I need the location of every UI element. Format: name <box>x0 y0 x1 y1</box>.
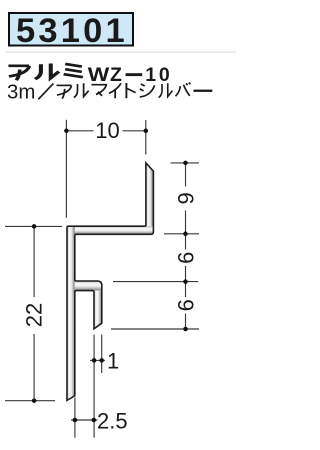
title kana A <box>8 66 29 80</box>
dim 2.5: dimension line <box>71 419 98 421</box>
title long dash <box>126 73 143 76</box>
svg-text:W: W <box>88 64 110 85</box>
profile fill: middle fin <box>94 291 102 329</box>
dim 1: dimension line <box>90 359 105 361</box>
svg-text:22: 22 <box>22 303 47 327</box>
dim 22: extension line top <box>5 225 62 227</box>
dim 10: end dots <box>64 129 69 134</box>
svg-text:10: 10 <box>95 118 119 143</box>
subtitle kana SHI <box>140 84 155 97</box>
svg-text:6: 6 <box>173 299 198 311</box>
svg-text:6: 6 <box>173 252 198 264</box>
svg-text:9: 9 <box>173 192 198 204</box>
subtitle kana RU <box>74 83 89 97</box>
dim 10: extension line right <box>145 120 147 154</box>
dim 10: dimension line <box>66 130 93 132</box>
dim 9/6/6: dots <box>183 161 188 166</box>
title kana MI <box>64 64 83 77</box>
product number box 53101 <box>9 13 133 46</box>
dim 2.5: dots <box>73 418 78 423</box>
dim 10: extension line left <box>65 120 67 218</box>
profile fill: top arm <box>67 226 153 234</box>
subtitle long vowel bar <box>194 90 213 92</box>
subtitle kana TO <box>126 83 135 98</box>
title kana RU <box>35 64 59 80</box>
svg-text:2.5: 2.5 <box>97 409 128 434</box>
dim 1: extension lines <box>93 335 95 438</box>
svg-text:Z: Z <box>110 64 122 86</box>
svg-text:1: 1 <box>107 349 119 374</box>
subtitle kana RU2 <box>159 83 173 97</box>
subtitle fullwidth slash <box>38 83 53 99</box>
svg-text:3m: 3m <box>7 82 35 104</box>
svg-text:10: 10 <box>145 64 172 86</box>
profile fill: left wall <box>67 226 75 400</box>
dim 1: dots <box>92 358 97 363</box>
dim 22: dimension line <box>33 226 35 297</box>
profile fill: middle arm <box>75 281 102 291</box>
subtitle kana BA <box>175 83 190 97</box>
dim 22: extension line bottom <box>5 400 55 402</box>
dim 9/6/6: dimension line segments <box>185 163 187 187</box>
svg-text:53101: 53101 <box>16 12 128 50</box>
dim 22: end dots <box>32 224 37 229</box>
faint rule under header box <box>6 52 236 53</box>
dim 2.5: extension line left <box>74 398 76 438</box>
profile outline <box>67 163 153 401</box>
dim 9/6/6: extension lines <box>171 162 200 164</box>
profile fill: top fin <box>146 163 154 234</box>
subtitle kana A <box>57 85 72 98</box>
subtitle kana MA <box>91 85 106 96</box>
subtitle kana I <box>109 83 121 98</box>
